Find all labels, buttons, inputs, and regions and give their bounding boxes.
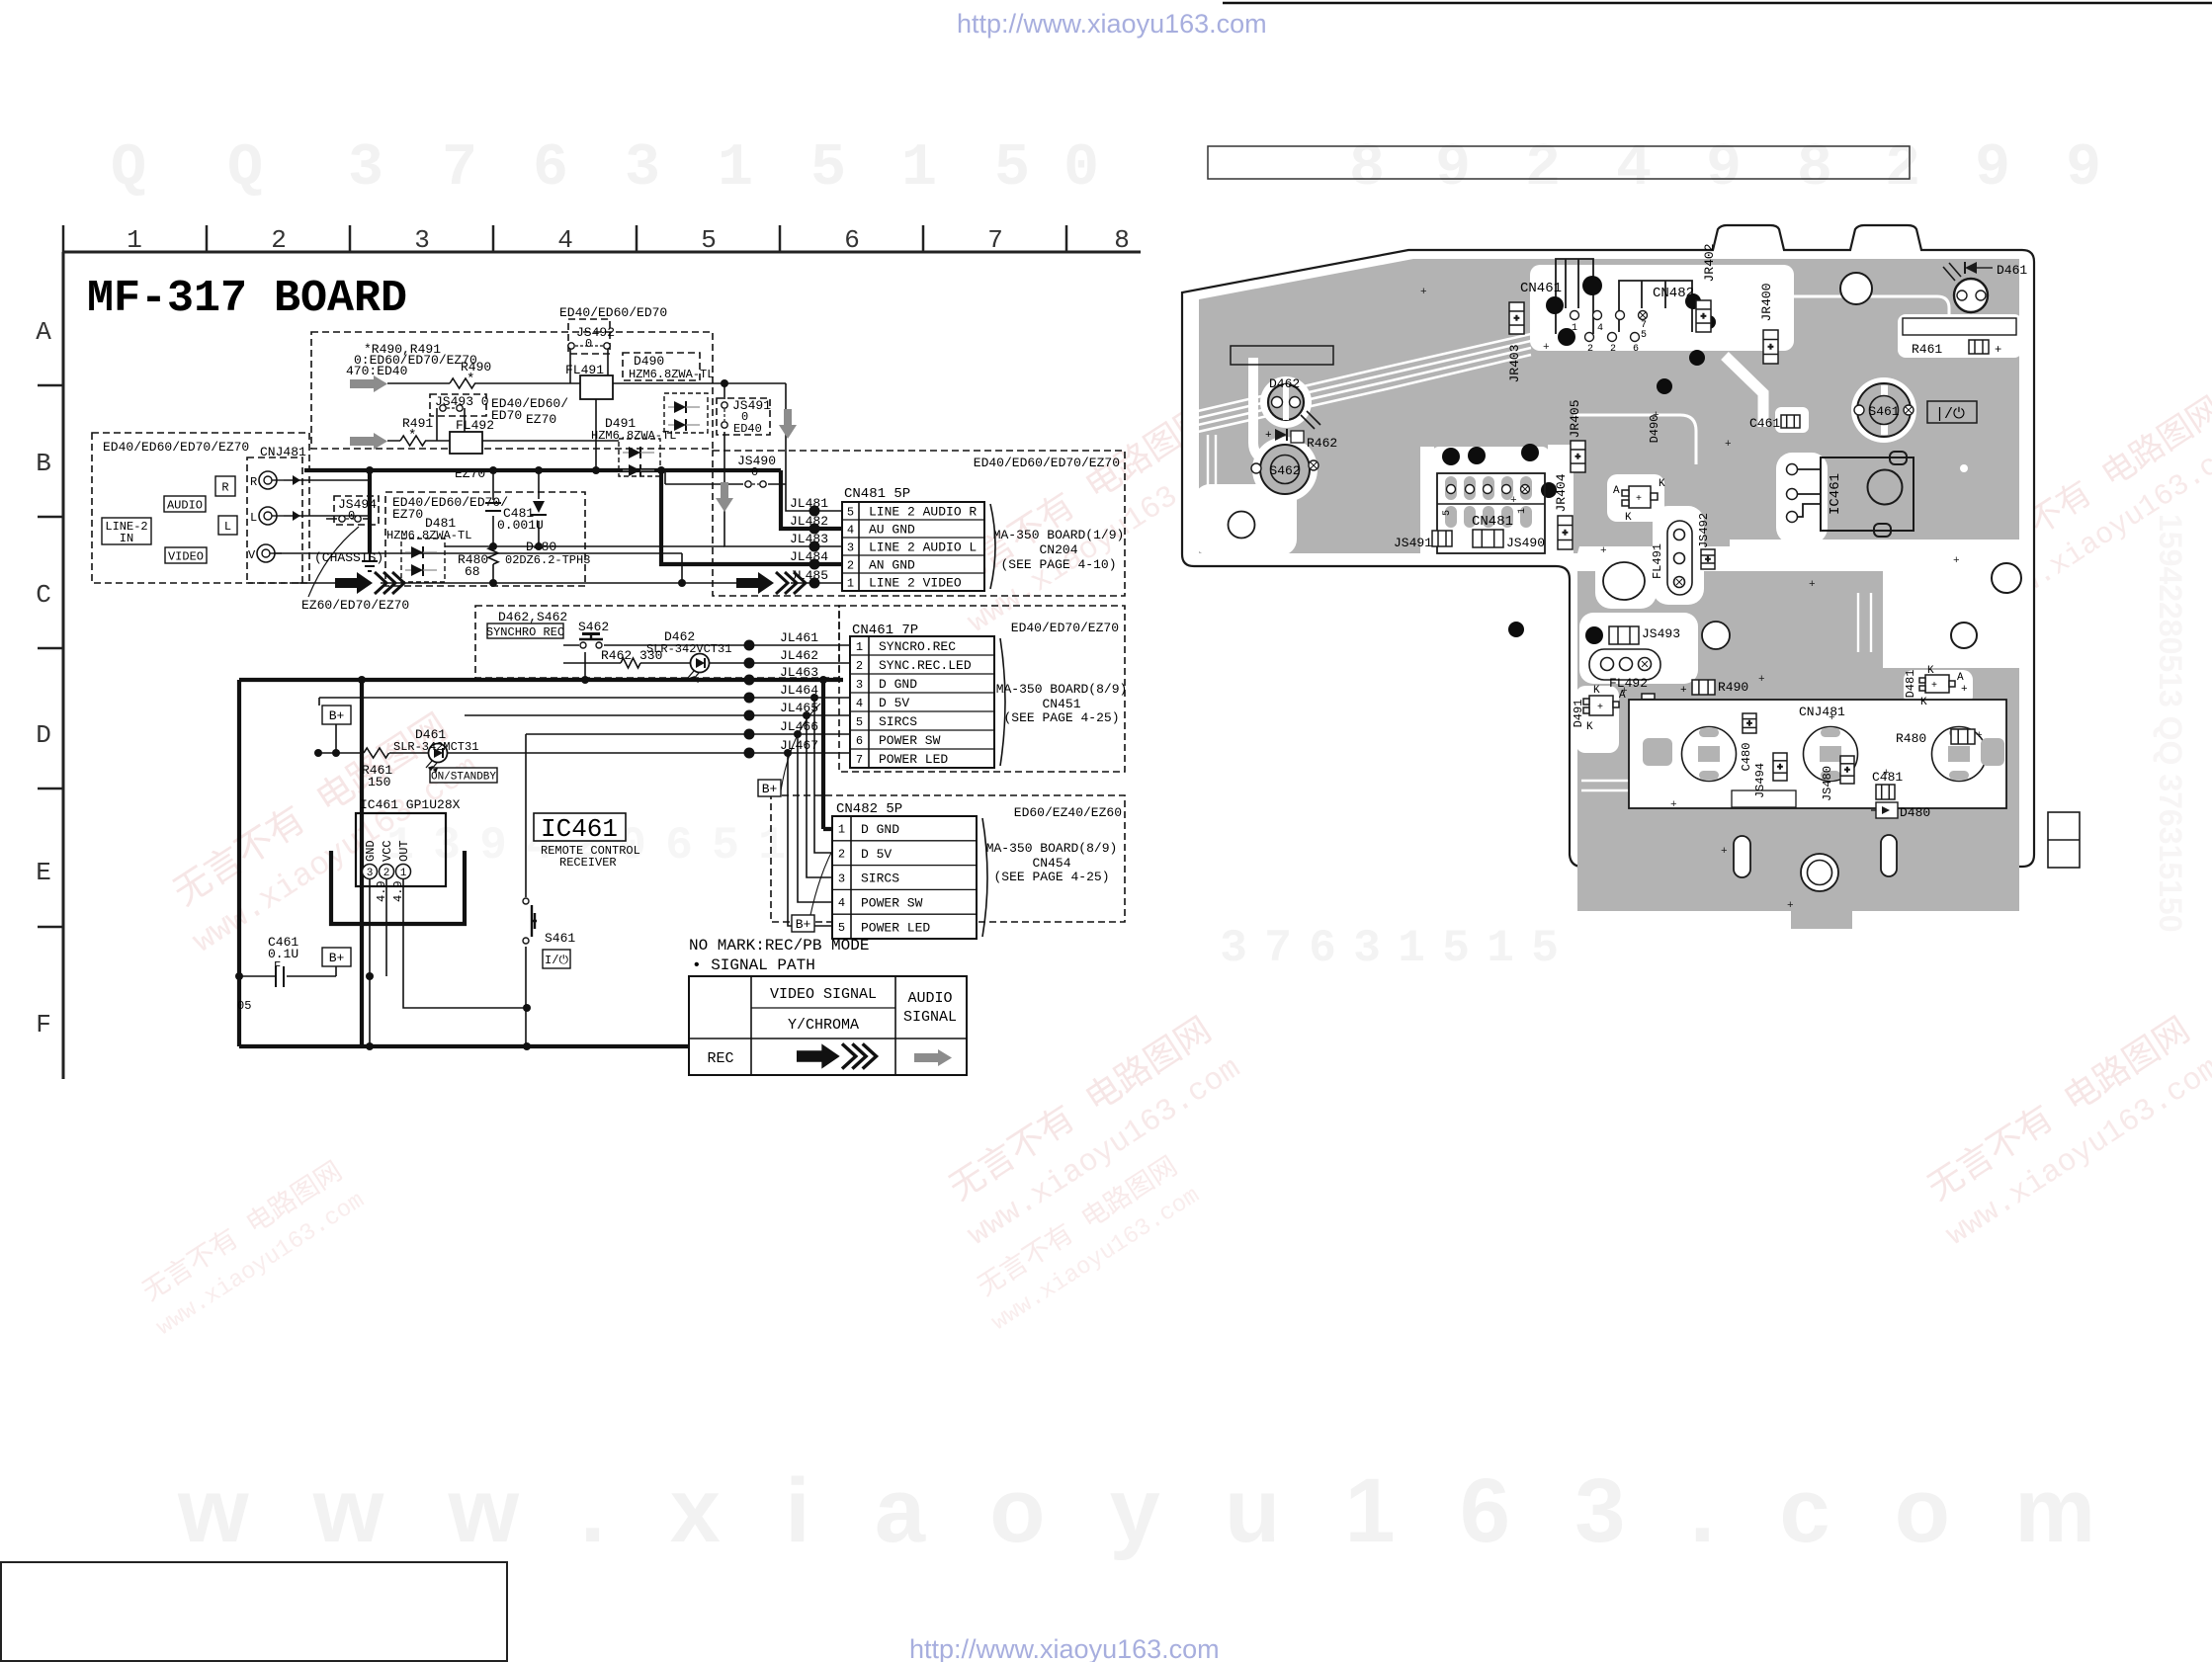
wire JS492 taps — [570, 346, 608, 383]
svg-text:B+: B+ — [762, 782, 778, 796]
svg-text:K: K — [1586, 721, 1593, 733]
svg-text:7: 7 — [442, 135, 477, 203]
ruler row letters — [36, 317, 51, 1039]
svg-text:D462: D462 — [1269, 376, 1300, 391]
pointer curve EZ60 to JS494 — [308, 527, 359, 597]
wire IC461 pin3 drop — [369, 878, 371, 1046]
svg-text:68: 68 — [465, 564, 480, 579]
pcb connector CN482 — [1619, 281, 1692, 332]
dashed box D481 region — [385, 492, 585, 586]
svg-text:+: + — [1883, 768, 1890, 780]
jumper JR403 symbol — [1509, 302, 1524, 334]
IC461 shield bracket — [331, 851, 465, 924]
white traces left edge — [1208, 435, 1216, 549]
wire D480 branch — [538, 470, 540, 546]
led D461 (pcb) — [1943, 262, 2027, 312]
hole bottom center inner — [1808, 861, 1832, 885]
svg-text:(SEE PAGE 4-25): (SEE PAGE 4-25) — [993, 870, 1109, 884]
thick D GND bus — [239, 680, 843, 1046]
svg-text:FL491: FL491 — [1651, 543, 1664, 579]
page top border line — [1223, 2, 2212, 4]
svg-text:S461: S461 — [545, 931, 575, 946]
white traces bundle — [1198, 334, 1531, 432]
svg-text:Q: Q — [227, 135, 263, 203]
svg-text:+: + — [1844, 766, 1849, 776]
wire to CN482 pin4 — [798, 734, 832, 902]
white ring S461 — [1851, 377, 1916, 443]
svg-text:9: 9 — [479, 820, 507, 872]
dashed box JS493 — [430, 394, 486, 416]
svg-text:+: + — [1514, 314, 1519, 324]
pcb copper pour lower-right column — [1829, 668, 2019, 911]
svg-text:05: 05 — [237, 999, 251, 1013]
watermark pink stamps — [130, 319, 2212, 1341]
wire JL462 row — [563, 662, 850, 664]
svg-text:ED40/ED60/ED70/EZ70: ED40/ED60/ED70/EZ70 — [103, 440, 249, 455]
pcb connector pin pads — [1571, 311, 1648, 342]
pcb copper bridge (between pours) — [1829, 571, 1883, 668]
pcb copper tab in notch — [1791, 886, 1852, 929]
jumper JS493 — [440, 405, 446, 411]
svg-text:5: 5 — [701, 225, 717, 255]
svg-text:D 5V: D 5V — [879, 696, 909, 710]
dashed region D462,S462 — [475, 606, 839, 678]
svg-text:|/⏻: |/⏻ — [1935, 406, 1965, 423]
svg-text:JL482: JL482 — [790, 514, 828, 529]
pcb test point dots — [1442, 276, 1716, 644]
svg-text:POWER SW: POWER SW — [879, 733, 941, 748]
svg-text:C461: C461 — [1749, 416, 1780, 431]
svg-text:1: 1 — [1517, 508, 1528, 514]
svg-text:1: 1 — [901, 135, 937, 203]
svg-text:B+: B+ — [329, 708, 345, 723]
diode pair D490 — [674, 401, 686, 413]
svg-text:JR403: JR403 — [1507, 344, 1522, 382]
zener D480 — [533, 501, 545, 513]
switch S461 (pcb) — [1854, 383, 1914, 437]
svg-text:(SEE PAGE 4-10): (SEE PAGE 4-10) — [1000, 557, 1116, 572]
svg-text:VIDEO SIGNAL: VIDEO SIGNAL — [770, 986, 877, 1003]
svg-text:1: 1 — [718, 135, 753, 203]
wire JL461 row — [563, 644, 850, 646]
svg-text:JR402: JR402 — [1702, 243, 1717, 282]
svg-text:2: 2 — [271, 225, 287, 255]
svg-text:+: + — [1563, 529, 1568, 539]
svg-text:5: 5 — [1442, 510, 1453, 516]
jumper JS491 — [722, 402, 727, 408]
label AUDIO — [164, 496, 206, 512]
jumper JS491 symbol (pcb) — [1432, 531, 1452, 546]
jumper JS493 symbol (pcb) — [1609, 626, 1639, 644]
svg-text:+: + — [1701, 312, 1706, 322]
jumper JR404 symbol — [1558, 516, 1573, 549]
hole top right — [1840, 273, 1872, 304]
svg-text:FL491: FL491 — [565, 363, 604, 377]
resistor R491 — [400, 436, 426, 446]
svg-text:3: 3 — [1220, 923, 1247, 974]
wire IC461 pin1 drop — [403, 878, 527, 1008]
wire row R490 y=388 — [387, 382, 786, 384]
svg-text:R: R — [250, 475, 257, 489]
svg-text:+: + — [1995, 343, 2001, 357]
black arrow video (left) — [335, 572, 373, 594]
svg-text:AUDIO: AUDIO — [907, 990, 952, 1007]
diode mark R wire — [293, 475, 300, 485]
pin 2 IC461 — [380, 865, 394, 879]
filter FL492 (pcb) — [1589, 649, 1660, 680]
wire B+1 drop to JL467 — [335, 724, 337, 753]
filter FL491 — [580, 375, 613, 399]
svg-text:JL461: JL461 — [780, 630, 818, 645]
dashed box JS491 — [717, 398, 770, 435]
svg-text:1: 1 — [127, 225, 142, 255]
rca jack R (CNJ481) — [259, 471, 277, 489]
jumper JS490 — [745, 481, 751, 487]
svg-text:+: + — [1265, 430, 1272, 442]
svg-text:HZM6.8ZWA-TL: HZM6.8ZWA-TL — [591, 429, 676, 443]
svg-text:S462: S462 — [1269, 463, 1300, 478]
note MA-350 BOARD(8/9) CN454 — [986, 841, 1118, 884]
wire JL464 row — [319, 698, 850, 706]
svg-text:ED40/ED60/ED70/EZ70: ED40/ED60/ED70/EZ70 — [974, 456, 1120, 470]
white ring D462 — [1260, 376, 1312, 428]
svg-text:+: + — [1721, 846, 1728, 858]
svg-text:REC: REC — [707, 1050, 733, 1067]
pcb block CNJ481 — [1629, 700, 2006, 808]
wire to CN482 pin3 — [807, 715, 832, 877]
svg-text:• SIGNAL PATH: • SIGNAL PATH — [692, 956, 815, 974]
ruler horizontal line — [63, 251, 1141, 254]
dashed box D490 diode pair — [664, 393, 708, 433]
svg-text:4: 4 — [557, 225, 573, 255]
svg-text:LINE 2 AUDIO R: LINE 2 AUDIO R — [869, 505, 977, 520]
svg-text:R491: R491 — [402, 416, 433, 431]
svg-text:+: + — [1597, 703, 1603, 713]
svg-text:5: 5 — [810, 135, 846, 203]
svg-text:*: * — [467, 372, 474, 387]
svg-text:8: 8 — [1114, 225, 1130, 255]
svg-text:+: + — [1680, 685, 1687, 697]
svg-text:5: 5 — [838, 921, 845, 935]
wire JS490 left drop — [664, 470, 666, 484]
ruler column numbers — [127, 225, 1130, 255]
white zone IC461 pins — [1776, 453, 1828, 543]
label ON/STANDBY — [430, 768, 497, 783]
pcb plus marks — [1420, 287, 1983, 912]
wire rca R — [284, 479, 370, 481]
svg-text:2: 2 — [847, 558, 854, 572]
svg-text:4: 4 — [838, 896, 845, 910]
resistor R461 — [364, 748, 389, 758]
white channel above S461 — [1725, 356, 1763, 427]
svg-text:CN451: CN451 — [1042, 697, 1080, 711]
svg-text:HZM6.8ZWA-TL: HZM6.8ZWA-TL — [386, 529, 471, 542]
svg-text:http://www.xiaoyu163.com: http://www.xiaoyu163.com — [909, 1634, 1220, 1662]
svg-text:+: + — [1809, 579, 1816, 591]
bottom left empty box — [1, 1562, 507, 1661]
diode mark L wire — [293, 511, 300, 521]
svg-text:R: R — [221, 480, 228, 494]
dashed box D481 diode pair — [401, 539, 445, 582]
svg-text:150: 150 — [368, 775, 390, 789]
svg-text:AU GND: AU GND — [869, 523, 915, 538]
signal path table — [689, 976, 967, 1075]
svg-text:+: + — [1575, 453, 1580, 462]
svg-text:6: 6 — [533, 135, 568, 203]
watermark faint digits mid row — [386, 820, 786, 872]
white zone R461 — [1898, 314, 2022, 358]
ic IC461 (pcb) — [1793, 452, 1914, 537]
svg-text:K: K — [1659, 478, 1665, 490]
capacitor C461 — [275, 966, 277, 987]
diode D491 (pcb) — [1583, 696, 1619, 715]
svg-text:ED40/ED70/EZ70: ED40/ED70/EZ70 — [1011, 621, 1119, 635]
svg-text:+: + — [1777, 763, 1782, 773]
svg-text:4: 4 — [847, 523, 854, 537]
gray arrow down (JS491) — [779, 409, 797, 439]
svg-text:HZM6.8ZWA-TL: HZM6.8ZWA-TL — [629, 368, 714, 381]
svg-text:D491: D491 — [1572, 700, 1585, 728]
svg-text:www.xiaoyu163.com: www.xiaoyu163.com — [177, 1460, 2095, 1561]
svg-text:EZ70: EZ70 — [392, 507, 423, 522]
svg-text:ON/STANDBY: ON/STANDBY — [431, 771, 496, 783]
svg-text:E: E — [36, 858, 51, 887]
svg-text:SIGNAL: SIGNAL — [903, 1009, 957, 1026]
jumper JS480 symbol (pcb) — [1840, 756, 1854, 784]
thick bus audio y=476 — [304, 468, 781, 472]
svg-text:JS480: JS480 — [1821, 766, 1834, 801]
dashed box JS492 — [568, 319, 610, 354]
svg-text:9: 9 — [1975, 135, 2010, 203]
svg-text:2: 2 — [1525, 135, 1561, 203]
wire JL483 line2 audio L — [724, 455, 850, 546]
svg-text:A: A — [36, 317, 51, 347]
jumper JS494 — [339, 516, 345, 522]
resistor R462 — [621, 658, 640, 668]
watermark faint QQ digits top row — [111, 135, 2101, 203]
resistor R461 symbol (pcb) — [1969, 340, 1989, 354]
diode D462 triangle (pcb) — [1275, 429, 1287, 441]
svg-text:6: 6 — [665, 820, 693, 872]
led D461 — [429, 744, 448, 763]
svg-text:C480: C480 — [1740, 743, 1753, 772]
note MA-350 BOARD(8/9) CN451 — [996, 682, 1128, 725]
svg-text:NO MARK:REC/PB MODE: NO MARK:REC/PB MODE — [689, 937, 869, 955]
svg-text:JS494: JS494 — [338, 497, 377, 512]
svg-text:5: 5 — [856, 715, 863, 729]
svg-text:IN: IN — [120, 532, 133, 545]
svg-text:POWER SW: POWER SW — [861, 895, 923, 910]
svg-text:ED40: ED40 — [733, 422, 762, 436]
hole bottom center outer — [1801, 854, 1838, 891]
wire JS494 leads — [326, 518, 370, 520]
capacitor C481 symbol (pcb) — [1876, 785, 1895, 799]
jumper JR405 symbol — [1571, 441, 1585, 472]
wire JL466 row — [526, 733, 850, 735]
svg-text:A: A — [1613, 485, 1620, 497]
pin 1 IC461 — [396, 865, 411, 879]
svg-text:SYNCRO.REC: SYNCRO.REC — [879, 639, 956, 654]
svg-text:CNJ481: CNJ481 — [260, 445, 306, 459]
wire S461 riser — [525, 734, 527, 1046]
hole right mid2 — [1951, 623, 1977, 648]
slot bottom right — [1881, 835, 1897, 876]
svg-text:JS493: JS493 — [1642, 626, 1680, 641]
svg-text:ED70: ED70 — [491, 408, 522, 423]
svg-text:B: B — [36, 449, 51, 478]
svg-text:2: 2 — [856, 659, 863, 673]
wire S462 drop thick — [584, 652, 586, 680]
thick chassis drop x=374 — [368, 470, 372, 553]
svg-text:3: 3 — [367, 868, 374, 879]
svg-text:1: 1 — [856, 640, 863, 654]
variant dashed box A (jumpers/filters region) — [311, 332, 713, 449]
pcb copper pour lower-left column — [1577, 571, 1829, 911]
white dot — [1960, 464, 1968, 472]
svg-text:+: + — [1961, 684, 1968, 696]
white channel left of CN481 — [1420, 447, 1434, 557]
thick AU GND path — [781, 470, 850, 529]
svg-text:S461: S461 — [1868, 404, 1899, 419]
svg-text:LINE 2 VIDEO: LINE 2 VIDEO — [869, 576, 962, 591]
gray arrow in (R491 row) — [350, 433, 387, 450]
svg-text:0: 0 — [1063, 135, 1099, 203]
svg-text:http://www.xiaoyu163.com: http://www.xiaoyu163.com — [957, 9, 1267, 39]
svg-text:5: 5 — [994, 135, 1030, 203]
switch S461 — [523, 898, 529, 904]
power B+ (3) — [792, 915, 814, 932]
switch S462 (pcb) — [1251, 445, 1319, 494]
svg-text:D: D — [36, 720, 51, 750]
wire JL481 drop — [786, 383, 850, 511]
wire to CN482 pin5 — [788, 753, 832, 926]
svg-text:JS491: JS491 — [1394, 536, 1432, 550]
svg-text:VIDEO: VIDEO — [168, 549, 204, 563]
svg-text:5: 5 — [1442, 923, 1470, 974]
led pad D462 (pcb) — [1268, 376, 1320, 429]
svg-text:1: 1 — [400, 868, 407, 879]
svg-text:L: L — [250, 511, 257, 525]
svg-text:AUDIO: AUDIO — [167, 498, 203, 512]
white traces lower — [1581, 593, 1871, 790]
dashed label box D490 — [623, 353, 700, 380]
svg-text:+: + — [1931, 681, 1937, 692]
white zone CN461/CN482 pads — [1530, 265, 1794, 351]
power B+ (1) — [322, 706, 351, 724]
jumper JS494 symbol (pcb) — [1773, 753, 1787, 781]
svg-text:3: 3 — [414, 225, 430, 255]
pin 3 IC461 — [363, 865, 378, 879]
white ring S462 — [1252, 437, 1318, 502]
wire JL467 row — [318, 752, 850, 754]
jumper JR400 symbol — [1763, 330, 1778, 364]
svg-text:R461: R461 — [1912, 342, 1942, 357]
diode pair D481 — [411, 546, 423, 558]
wire IC461 pin2 drop — [385, 878, 387, 976]
svg-text:JS494: JS494 — [1753, 763, 1767, 798]
label IC461 big — [534, 813, 626, 841]
svg-text:CN481: CN481 — [1472, 514, 1513, 530]
svg-text:+: + — [1543, 342, 1550, 354]
svg-text:R480: R480 — [1896, 731, 1926, 746]
white zone below FL491 — [1579, 613, 1698, 684]
svg-text:+: + — [1621, 686, 1628, 698]
svg-text:AN GND: AN GND — [869, 558, 915, 573]
svg-text:7: 7 — [1264, 923, 1292, 974]
resistor R491 symbol (pcb) — [1642, 694, 1655, 713]
label VIDEO — [165, 547, 207, 563]
dashed region CN482 / ED60-EZ60 — [771, 795, 1125, 922]
svg-text:IC461: IC461 — [541, 814, 618, 844]
svg-text:5: 5 — [847, 505, 854, 519]
top right empty rectangle — [1208, 146, 1910, 179]
gray arrow down (JS490) — [716, 482, 733, 512]
hole left screw — [1229, 512, 1255, 539]
svg-text:JL483: JL483 — [790, 532, 828, 546]
gray arrow in (R490 row) — [350, 375, 387, 392]
white trace mid — [1574, 415, 1696, 464]
svg-text:I/⏻: I/⏻ — [545, 954, 568, 967]
svg-text:(SEE PAGE 4-25): (SEE PAGE 4-25) — [1003, 710, 1119, 725]
table CN461 rows — [850, 636, 1005, 768]
jumper JS492 — [568, 343, 574, 349]
svg-text:JL463: JL463 — [780, 665, 818, 680]
svg-text:3: 3 — [847, 540, 854, 554]
svg-text:SLR-342VCT31: SLR-342VCT31 — [646, 642, 731, 656]
wire JS491 drop — [723, 383, 725, 455]
svg-text:D490: D490 — [634, 354, 664, 369]
svg-text:MF-317 BOARD: MF-317 BOARD — [87, 274, 407, 324]
svg-text:Q: Q — [111, 135, 146, 203]
wire JS493 taps — [437, 408, 465, 441]
svg-text:7: 7 — [856, 753, 863, 767]
white zone CN481 block — [1431, 447, 1550, 561]
wire to CN482 pin2 — [814, 698, 832, 853]
svg-text:K: K — [1927, 665, 1934, 677]
svg-text:GND: GND — [364, 840, 378, 862]
white zone FL491 — [1653, 506, 1704, 605]
svg-text:D GND: D GND — [879, 677, 917, 692]
wire rca V — [275, 553, 736, 583]
svg-text:JR404: JR404 — [1554, 473, 1569, 512]
svg-text:0.001U: 0.001U — [497, 518, 544, 533]
slot bottom left — [1734, 836, 1750, 877]
svg-text:4.9: 4.9 — [391, 880, 405, 902]
wire JL485 video — [297, 582, 682, 584]
table CN481 rows — [842, 502, 995, 591]
svg-text:MA-350 BOARD(8/9): MA-350 BOARD(8/9) — [996, 682, 1128, 697]
pcb block CN481 — [1437, 473, 1545, 553]
svg-text:0: 0 — [585, 337, 592, 351]
white zone oval — [1595, 551, 1657, 609]
jumper JS490 symbol (pcb) — [1473, 530, 1503, 547]
resistor R490 — [450, 378, 475, 388]
wire JS490 row — [665, 483, 786, 485]
wire rca L — [284, 515, 370, 517]
svg-text:D 5V: D 5V — [861, 847, 892, 862]
svg-text:Y/CHROMA: Y/CHROMA — [788, 1017, 859, 1034]
svg-text:2: 2 — [1587, 344, 1593, 355]
op IC461 receiver body — [356, 813, 446, 886]
note MA-350 BOARD(1/9) — [993, 528, 1125, 572]
capacitor C480 symbol (pcb) — [1743, 713, 1756, 733]
jumper JR402 symbol — [1696, 300, 1711, 332]
svg-text:SYNCHRO REC: SYNCHRO REC — [486, 625, 564, 639]
svg-text:9: 9 — [2066, 135, 2101, 203]
svg-text:3: 3 — [1353, 923, 1381, 974]
svg-text:F: F — [274, 959, 281, 973]
svg-text:JS491: JS491 — [732, 398, 771, 413]
